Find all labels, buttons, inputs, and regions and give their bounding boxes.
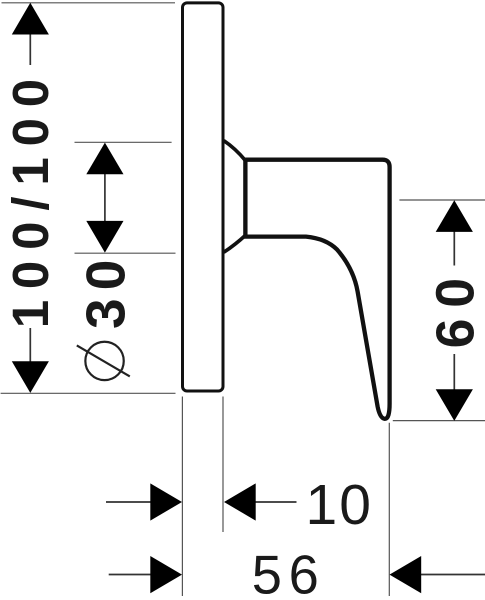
wall plate (escutcheon) <box>183 3 224 391</box>
svg-text:30: 30 <box>75 251 137 329</box>
svg-text:60: 60 <box>425 267 485 348</box>
extension line below plate left edge <box>181 397 183 597</box>
arrowhead 60 down <box>436 389 473 421</box>
svg-text:56: 56 <box>252 544 326 600</box>
dimension 100/100 stem lower <box>29 328 31 362</box>
arrowhead 10 pointing left <box>224 483 256 520</box>
dimension 56 leader right <box>420 574 485 576</box>
arrowhead 100/100 up <box>12 3 49 35</box>
dimension diameter-30 stem <box>104 174 106 222</box>
dimension 100/100 stem upper <box>29 34 31 65</box>
arrowhead d30 down <box>86 221 123 253</box>
extension line bottom-left (plate bottom, 100/100 lower reference) <box>1 392 176 394</box>
arrowhead 56 pointing right <box>150 556 182 593</box>
extension line diameter-30 bottom <box>75 252 176 254</box>
extension line below handle tip <box>388 423 390 596</box>
arrowhead 56 pointing left <box>390 556 422 593</box>
extension line below plate right edge <box>222 397 224 533</box>
arrowhead 100/100 down <box>12 361 49 393</box>
arrowhead 60 up <box>436 200 473 232</box>
dimension 10 leader right <box>252 501 297 503</box>
svg-text:10: 10 <box>306 473 374 537</box>
lever handle body <box>245 160 389 419</box>
diameter symbol slash <box>77 345 130 376</box>
extension line diameter-30 top <box>75 141 172 143</box>
arrowhead 10 pointing right <box>150 483 182 520</box>
extension line top-left (plate top, 100/100 upper reference) <box>2 2 176 4</box>
extension line 60 top (hub axis) <box>399 199 485 201</box>
dimension 56 leader left <box>109 574 152 576</box>
arrowhead d30 up <box>86 143 123 175</box>
diameter symbol circle <box>85 342 123 380</box>
svg-text:100/100: 100/100 <box>2 68 59 328</box>
extension line 60 bottom (handle tip) <box>393 420 485 422</box>
dimension 60 stem upper <box>453 231 455 266</box>
dimension 60 stem lower <box>453 354 455 390</box>
valve neck trumpet flare <box>224 141 245 253</box>
dimension 10 leader left <box>106 501 153 503</box>
